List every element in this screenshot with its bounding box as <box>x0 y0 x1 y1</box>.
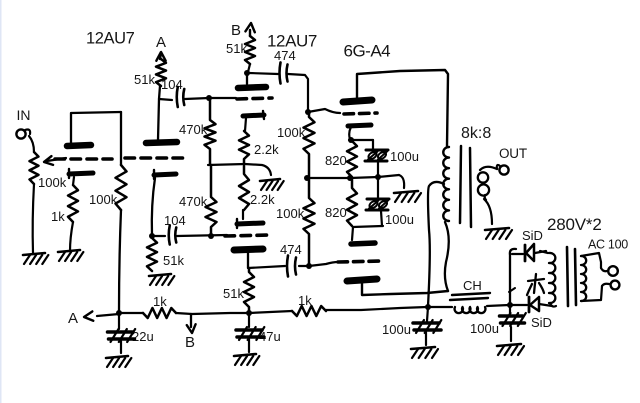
choke CH winding <box>455 307 486 313</box>
wire to 6G-A4 lower grid <box>309 262 338 266</box>
wire plate node to C4 <box>248 266 285 268</box>
capacitor value 100u (C10) <box>470 321 499 336</box>
triode V1b cathode <box>154 170 176 179</box>
AC plug prong 2 <box>611 281 620 290</box>
triode V2a cathode <box>243 111 264 119</box>
wire rectifier node up to diode D1 <box>510 249 516 305</box>
resistor value 470k (R6) <box>179 194 208 209</box>
wire cathode node to C2 <box>152 235 165 237</box>
svg-text:820: 820 <box>325 205 347 220</box>
svg-text:2.2k: 2.2k <box>254 142 279 157</box>
capacitor C10 100u <box>500 305 526 326</box>
svg-text:100k: 100k <box>38 175 67 190</box>
svg-text:100u: 100u <box>382 322 411 337</box>
svg-text:6G-A4: 6G-A4 <box>344 42 391 61</box>
wire R2 to A rail <box>119 210 121 312</box>
triode V2b grid (dashed) <box>225 235 270 236</box>
diode D2 SiD (bottom) <box>510 297 552 312</box>
wire primary top to plug <box>581 253 607 271</box>
svg-text:IN: IN <box>17 107 31 123</box>
node rectifier output <box>507 302 513 308</box>
power transformer primary winding <box>581 256 586 301</box>
svg-text:51k: 51k <box>163 253 184 268</box>
ground below pot <box>23 253 48 264</box>
resistor value 51k (R7 plate load) <box>226 41 247 56</box>
net label A (rail) <box>68 310 78 327</box>
capacitor C5 100u <box>365 140 388 177</box>
triode V1a grid (dashed) <box>55 157 112 161</box>
cathode rail upper <box>349 139 373 141</box>
svg-text:470k: 470k <box>179 194 208 209</box>
resistor R8 51k <box>147 238 157 271</box>
resistor R17 1k <box>292 306 326 316</box>
node cathode rail <box>348 137 354 143</box>
node junction V1b cathode <box>149 233 155 239</box>
triode V2b cathode <box>237 219 263 228</box>
triode V2a grid (dashed) <box>237 98 272 99</box>
resistor R12 100k <box>304 178 315 266</box>
resistor value 100k (R12) <box>276 206 305 221</box>
resistor R13 820 <box>347 141 357 177</box>
capacitor C3 474 <box>280 63 288 84</box>
node B+ at C9 <box>425 304 431 310</box>
capacitor value 100u (C6) <box>385 212 414 227</box>
triode V2b plate <box>234 249 263 250</box>
wire R1 to ground <box>70 222 73 251</box>
capacitor value 100u (C9) <box>382 322 411 337</box>
pentode V4 plate <box>347 279 377 281</box>
wire A node to R16 <box>119 312 143 314</box>
svg-text:B: B <box>185 334 195 351</box>
wire C10 to ground <box>510 327 512 341</box>
choke CH core <box>450 293 490 300</box>
svg-text:51k: 51k <box>223 286 244 301</box>
wire plate node to C1 <box>159 99 172 100</box>
label AC 100 <box>588 238 628 252</box>
ground for 820 pairs <box>394 191 421 202</box>
wire R11 to V2b cathode <box>242 210 244 219</box>
potentiometer VR1 100k <box>30 152 39 184</box>
svg-text:2.2k: 2.2k <box>250 192 275 207</box>
svg-text:820: 820 <box>325 153 347 168</box>
svg-text:51k: 51k <box>134 72 155 87</box>
svg-text:12AU7: 12AU7 <box>86 30 135 48</box>
capacitor C6 100u <box>366 177 389 226</box>
wire to V4 cathode <box>352 227 353 240</box>
capacitor C7 22u <box>108 313 136 342</box>
OPT primary winding <box>443 147 449 221</box>
choke label CH <box>463 278 482 293</box>
capacitor value 47u (C8) <box>259 329 281 344</box>
svg-text:8k:8: 8k:8 <box>461 125 491 142</box>
output jack OUT <box>497 165 509 175</box>
svg-text:474: 474 <box>280 242 302 257</box>
wire C3 to grid feed node <box>288 74 308 112</box>
ground below C8 <box>234 354 259 365</box>
label OUT <box>499 146 527 161</box>
capacitor C8 47u <box>236 313 264 340</box>
node at C1/R5 <box>206 95 212 101</box>
ground below OPT secondary <box>485 228 512 239</box>
resistor R15 51k <box>244 268 254 313</box>
svg-text:1k: 1k <box>298 293 312 308</box>
resistor R7 51k <box>245 36 255 64</box>
resistor R16 1k <box>143 308 176 318</box>
pentode V3 plate <box>343 100 372 102</box>
cathode rail lower <box>353 226 383 227</box>
svg-text:SiD: SiD <box>531 315 552 330</box>
input jack IN <box>16 129 30 138</box>
diode D1 SiD (top) <box>512 244 546 261</box>
resistor value 1k (R16 decoupling) <box>153 294 167 309</box>
triode V2a plate <box>238 73 266 88</box>
wire to 6G-A4 upper grid <box>308 109 340 113</box>
transformer label 8k:8 <box>461 125 491 142</box>
resistor value 51k (R3 plate load) <box>134 72 155 87</box>
triode V1a plate <box>67 145 91 146</box>
node splitter plate <box>244 70 250 76</box>
capacitor value 100u (C5) <box>390 149 419 164</box>
resistor value 470k (R5) <box>179 122 208 137</box>
OPT core <box>460 146 471 227</box>
svg-text:470k: 470k <box>179 122 208 137</box>
scan edge artifact <box>0 0 2 403</box>
resistor value 2.2k (R10) <box>254 142 279 157</box>
resistor R14 820 <box>347 178 357 226</box>
diode label SiD (top) <box>522 228 543 243</box>
svg-text:100k: 100k <box>276 206 305 221</box>
tick mark on rectifier wire <box>509 288 515 292</box>
resistor value 51k (R8) <box>163 253 184 268</box>
node 100k mid tap <box>304 175 310 181</box>
tube label 6G-A4 <box>344 42 391 61</box>
label 280V*2 <box>547 215 602 234</box>
ground below C9 <box>411 347 438 358</box>
pot value 100k (VR1) <box>38 175 67 190</box>
wire V1b cathode down <box>152 178 155 235</box>
resistor R2 100k <box>116 165 127 210</box>
wire plate node down <box>120 112 122 165</box>
diode label SiD (bottom) <box>531 315 552 330</box>
node grid feed lower <box>306 263 312 269</box>
label IN <box>17 107 31 123</box>
resistor value 1k (R17 decoupling) <box>298 293 312 308</box>
resistor value 820 (R14) <box>325 205 347 220</box>
svg-text:22u: 22u <box>132 329 154 344</box>
node B rail / C8 <box>246 310 252 316</box>
net A arrow (supply) <box>156 52 165 61</box>
wire choke to rectifier node <box>487 305 509 306</box>
pentode V3 grid (dashed) <box>344 113 377 114</box>
resistor value 100k (R2) <box>89 192 118 207</box>
net B arrow (supply) <box>245 23 254 36</box>
svg-text:AC 100: AC 100 <box>588 238 628 252</box>
resistor value 51k (R15) <box>223 286 244 301</box>
pentode V4 cathode <box>351 243 375 244</box>
OPT primary bottom wire <box>445 222 449 291</box>
power transformer core <box>567 247 576 306</box>
resistor value 820 (R13) <box>325 153 347 168</box>
resistor R9 100k <box>304 112 315 178</box>
resistor R6 470k <box>206 165 217 236</box>
svg-text:104: 104 <box>164 213 186 228</box>
resistor R3 51k <box>156 59 166 86</box>
ground for splitter network <box>260 179 284 190</box>
capacitor value 104 (C1) <box>161 77 183 92</box>
ground below R1 <box>58 250 83 261</box>
wire pot to ground <box>33 184 34 253</box>
wire V4 plate to OPT bottom <box>362 283 448 295</box>
net A arrow (rail) <box>84 311 119 320</box>
wire V3 cathode down <box>349 127 351 139</box>
triode V1a cathode <box>69 169 93 178</box>
ground below R8 <box>149 274 174 285</box>
resistor value 1k (R1 cathode) <box>51 209 65 224</box>
svg-text:280V*2: 280V*2 <box>547 215 602 234</box>
node at R6 bottom <box>208 233 214 239</box>
AC plug prong 1 <box>608 266 618 276</box>
svg-text:A: A <box>156 34 166 51</box>
wire B+ node to choke <box>428 306 452 308</box>
svg-text:CH: CH <box>463 278 482 293</box>
wire V3 plate to OPT top <box>357 70 448 146</box>
wire C8 to ground <box>248 339 250 352</box>
capacitor value 474 (C4) <box>280 242 302 257</box>
capacitor value 22u (C7) <box>132 329 154 344</box>
capacitor C9 100u <box>413 307 441 333</box>
tube label 12AU7 (second) <box>267 32 317 51</box>
wire C8 node to R17 <box>249 311 292 313</box>
resistor value 100k (R9) <box>277 125 306 140</box>
wire V2a cathode to R10 <box>245 118 246 131</box>
svg-text:100u: 100u <box>385 212 414 227</box>
net B arrow (rail) <box>187 314 196 333</box>
capacitor C1 104 <box>177 87 185 107</box>
triode V1b plate <box>146 142 177 143</box>
node mid rail right <box>375 174 381 180</box>
mid ground rail <box>307 175 404 188</box>
svg-text:B: B <box>231 22 241 39</box>
wire secondary to ground <box>484 199 492 224</box>
pot wiper arrow <box>44 156 66 165</box>
net label B (top) <box>231 22 241 39</box>
power transformer secondary winding <box>540 251 556 307</box>
node A rail / C7 <box>116 310 122 316</box>
wire C1 to splitter grid <box>185 98 236 99</box>
node grid feed upper <box>305 109 311 115</box>
capacitor C2 104 <box>169 226 177 245</box>
net label A (top) <box>156 34 166 51</box>
pentode V4 grid (dashed) <box>338 261 382 262</box>
wire primary bottom to plug <box>581 284 609 301</box>
wire R3 to plate node <box>158 86 160 140</box>
svg-text:100k: 100k <box>89 192 118 207</box>
wire V2b plate down <box>247 253 249 268</box>
ground below C7 <box>106 356 131 367</box>
svg-text:100k: 100k <box>277 125 306 140</box>
svg-text:100u: 100u <box>390 149 419 164</box>
wire C9 to ground <box>425 332 427 345</box>
wire jack to volume pot <box>29 136 34 152</box>
triode V1b grid (dashed) <box>125 156 184 160</box>
svg-text:SiD: SiD <box>522 228 543 243</box>
resistor R11 2.2k <box>239 166 249 210</box>
capacitor value 474 (C3) <box>274 48 296 63</box>
pentode V3 cathode <box>348 125 371 126</box>
wire splitter plate to C3 <box>249 73 278 74</box>
svg-text:12AU7: 12AU7 <box>267 32 317 51</box>
wire C4 to grid node <box>299 265 309 267</box>
resistor R10 2.2k <box>239 131 249 164</box>
net label B (rail) <box>185 334 195 351</box>
resistor R5 470k <box>205 98 216 164</box>
svg-text:1k: 1k <box>153 294 167 309</box>
capacitor value 104 (C2) <box>164 213 186 228</box>
wire R17 to PSU node <box>326 307 427 310</box>
wire C2 to grid wire <box>177 235 227 236</box>
svg-text:1k: 1k <box>51 209 65 224</box>
ground rail of splitter <box>208 164 271 175</box>
svg-text:OUT: OUT <box>499 146 527 161</box>
tube label 12AU7 (first) <box>86 30 135 48</box>
ground below C10 <box>497 344 524 355</box>
svg-text:100u: 100u <box>470 321 499 336</box>
wire V1a cathode to R1 <box>73 177 74 185</box>
wire R7 to plate node <box>248 64 250 72</box>
wire C7 to ground <box>120 341 122 353</box>
wire V1a plate up and right <box>71 112 121 143</box>
wire OPT center tap to B+ node <box>428 182 444 306</box>
OPT secondary winding <box>478 167 497 200</box>
transformer center scribble <box>527 274 544 295</box>
capacitor C4 474 <box>287 256 296 277</box>
wire R16 to C8 node <box>176 313 249 314</box>
resistor value 2.2k (R11) <box>250 192 275 207</box>
svg-text:A: A <box>68 310 78 327</box>
resistor R1 1k <box>68 185 78 222</box>
node mid rail left <box>347 175 353 181</box>
